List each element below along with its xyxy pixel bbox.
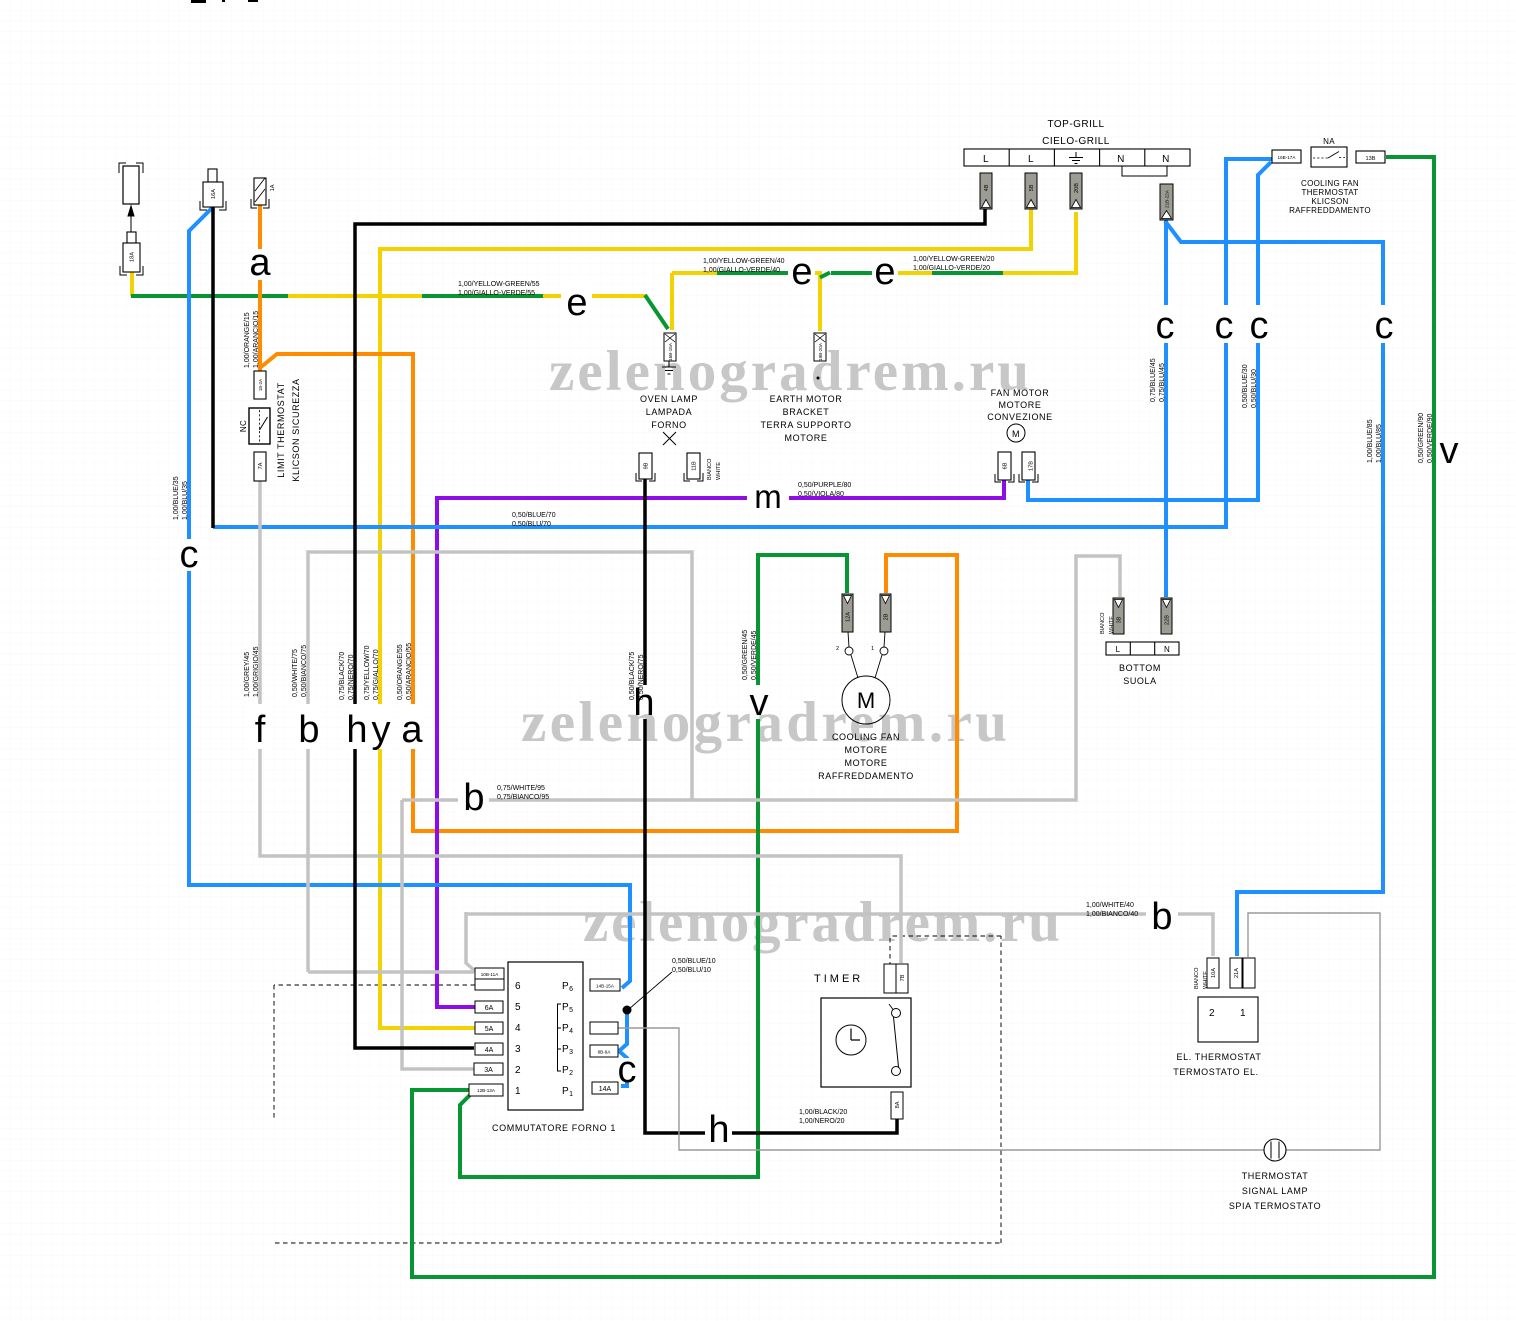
- dashed wire into 7B: [889, 938, 891, 964]
- svg-text:3A: 3A: [484, 1067, 493, 1074]
- svg-text:b: b: [298, 709, 319, 751]
- svg-text:c: c: [1250, 305, 1269, 347]
- connector 8A: [891, 1092, 903, 1119]
- connector 4A: [475, 1043, 503, 1055]
- svg-text:16B-17A: 16B-17A: [1278, 155, 1297, 160]
- svg-text:1,00/ARANCIO/15: 1,00/ARANCIO/15: [253, 311, 260, 368]
- svg-text:3B: 3B: [1117, 616, 1123, 623]
- svg-text:18A: 18A: [130, 252, 136, 262]
- arrow link: [128, 206, 134, 243]
- wire a orange 0,50/ORANGE/55 : limit thermostat to cooling fan motor 2B: [261, 354, 957, 831]
- wire f grey 1,00/GREY/45 : limit thermostat 7A to timer 7B: [260, 481, 901, 963]
- svg-text:21B-22A: 21B-22A: [1165, 189, 1170, 208]
- svg-text:16B-15A: 16B-15A: [668, 342, 673, 361]
- earth wire 1,00/YELLOW-GREEN/40 + /20 (oven lamp, earth motor bracket, top grill 20B): [672, 212, 1078, 331]
- motor terminal 1: [884, 632, 885, 647]
- svg-text:22B: 22B: [1165, 615, 1171, 625]
- connector 10A: [1207, 958, 1219, 988]
- svg-text:WHITE: WHITE: [1109, 616, 1115, 634]
- svg-text:BIANCO: BIANCO: [707, 458, 713, 480]
- connector 7B (two ways): [884, 964, 896, 993]
- svg-text:SPIA TERMOSTATO: SPIA TERMOSTATO: [1229, 1201, 1321, 1211]
- svg-text:N: N: [1162, 154, 1170, 165]
- svg-text:14A: 14A: [599, 1086, 612, 1093]
- connector 5B: [1025, 173, 1037, 209]
- connector 12B-13A: [469, 1084, 503, 1096]
- svg-text:0,75/BLUE/45: 0,75/BLUE/45: [1150, 358, 1157, 402]
- dashed wire x1001: [1000, 936, 1002, 1243]
- svg-text:1,00/BLUE/85: 1,00/BLUE/85: [1367, 419, 1374, 463]
- svg-text:KLICSON: KLICSON: [1311, 197, 1348, 206]
- svg-text:e: e: [874, 251, 895, 293]
- svg-text:v: v: [750, 682, 769, 724]
- svg-text:0,50/BIANCO/75: 0,50/BIANCO/75: [301, 645, 308, 697]
- connector 18-2A: [254, 371, 266, 399]
- svg-text:L: L: [1116, 645, 1121, 654]
- svg-text:0,50/WHITE/75: 0,50/WHITE/75: [292, 649, 299, 697]
- svg-text:e: e: [791, 251, 812, 293]
- svg-text:MOTORE: MOTORE: [845, 745, 888, 755]
- svg-text:h: h: [346, 709, 367, 751]
- svg-text:0,50/ARANCIO/55: 0,50/ARANCIO/55: [406, 643, 413, 700]
- svg-text:0,50/BLU/70: 0,50/BLU/70: [512, 521, 551, 528]
- svg-text:c: c: [1215, 305, 1234, 347]
- thermostat signal lamp: [1264, 1139, 1286, 1161]
- wire c blue 0,75/BLUE/45 : 21B-22A to bottom element 22B: [1164, 219, 1168, 597]
- connector 21B-22A: [1160, 184, 1173, 220]
- N-N bridge bracket: [1122, 166, 1167, 176]
- wire y yellow 0,75/YELLOW/70 : top-grill 5B to commutatore 5A: [380, 209, 1031, 1028]
- svg-text:10A: 10A: [1211, 968, 1217, 978]
- svg-text:1: 1: [871, 646, 874, 652]
- thermostat signal lamp loop wire: [618, 913, 1380, 1150]
- svg-text:1,00/YELLOW-GREEN/40: 1,00/YELLOW-GREEN/40: [703, 258, 785, 265]
- svg-text:19B-20A: 19B-20A: [818, 342, 823, 361]
- connector blank (lamp return): [1243, 958, 1255, 988]
- svg-text:0,50/BLU/30: 0,50/BLU/30: [1251, 369, 1258, 408]
- wire c blue 1,00/BLUE/35 : 16A down left side to commutatore 14B-15A: [189, 159, 1383, 1086]
- svg-text:WHITE: WHITE: [1203, 971, 1209, 989]
- svg-text:12A: 12A: [846, 612, 852, 622]
- svg-text:0,50/ORANGE/55: 0,50/ORANGE/55: [397, 644, 404, 700]
- connector 6B: [995, 452, 1014, 482]
- dashed wire x274: [273, 985, 275, 1119]
- wire m purple 0,50/PURPLE/80 : fan motor 6B to commutatore 6A: [437, 480, 1004, 1007]
- svg-text:COOLING FAN: COOLING FAN: [832, 732, 900, 742]
- earth wire 1,00/YELLOW-GREEN/55 (18A to oven lamp): [131, 272, 668, 329]
- svg-text:0,75/NERO/70: 0,75/NERO/70: [348, 654, 355, 700]
- connector 11B: [684, 453, 703, 481]
- ground symbol oven lamp: [662, 361, 676, 374]
- svg-text:0,50/GREEN/90: 0,50/GREEN/90: [1418, 413, 1425, 463]
- svg-text:1,00/GIALLO-VERDE/20: 1,00/GIALLO-VERDE/20: [913, 265, 990, 272]
- svg-text:4B: 4B: [984, 184, 990, 191]
- svg-text:BOTTOM: BOTTOM: [1119, 663, 1161, 673]
- svg-text:0,50/BLACK/75: 0,50/BLACK/75: [629, 652, 636, 700]
- svg-text:zelenogradrem.ru: zelenogradrem.ru: [583, 891, 1060, 954]
- svg-text:10B-11A: 10B-11A: [481, 972, 499, 977]
- svg-text:1,00/GIALLO-VERDE/40: 1,00/GIALLO-VERDE/40: [703, 267, 780, 274]
- svg-text:4: 4: [515, 1023, 521, 1034]
- svg-text:20B: 20B: [1074, 183, 1080, 193]
- svg-text:1,00/BLACK/20: 1,00/BLACK/20: [799, 1109, 847, 1116]
- svg-text:BIANCO: BIANCO: [1194, 967, 1200, 989]
- svg-text:6B: 6B: [1003, 462, 1009, 469]
- oven lamp connector 16B-15A: [664, 333, 676, 361]
- svg-text:f: f: [255, 709, 266, 751]
- svg-text:NC: NC: [239, 420, 248, 432]
- svg-text:1,00/WHITE/40: 1,00/WHITE/40: [1086, 902, 1134, 909]
- svg-text:5B: 5B: [1029, 184, 1035, 191]
- earth symbol: [1069, 152, 1083, 164]
- cooling fan thermostat NA contact: [1311, 147, 1347, 167]
- connector 3B: [1113, 598, 1124, 634]
- svg-text:1,00/BLU/35: 1,00/BLU/35: [182, 481, 189, 520]
- svg-text:a: a: [249, 242, 271, 284]
- wire v green 0,50/GREEN/90 : commutatore 12B-13A around perimeter to 13B: [412, 157, 1434, 1277]
- svg-text:LIMIT THERMOSTAT: LIMIT THERMOSTAT: [276, 382, 286, 477]
- svg-text:M: M: [857, 688, 875, 713]
- spare connector top-left: [119, 163, 143, 204]
- svg-text:FAN MOTOR: FAN MOTOR: [991, 388, 1050, 398]
- junction dot on blue wire: [623, 1006, 632, 1015]
- svg-text:c: c: [1156, 305, 1175, 347]
- svg-text:0,50/BLU/10: 0,50/BLU/10: [672, 967, 711, 974]
- connector 6A: [475, 1001, 503, 1013]
- svg-text:m: m: [754, 478, 782, 515]
- dashed wire y936: [890, 935, 1001, 937]
- svg-text:TERMOSTATO EL.: TERMOSTATO EL.: [1173, 1067, 1258, 1077]
- connector 4B: [980, 173, 992, 209]
- svg-text:1,00/GREY/45: 1,00/GREY/45: [244, 652, 251, 697]
- svg-text:BIANCO: BIANCO: [1100, 612, 1106, 634]
- svg-text:y: y: [372, 709, 391, 751]
- svg-text:0,50/VERDE/90: 0,50/VERDE/90: [1427, 413, 1434, 463]
- svg-text:v: v: [1440, 430, 1459, 472]
- svg-text:RAFFREDDAMENTO: RAFFREDDAMENTO: [818, 771, 914, 781]
- wire black 16A feed down to blue junction: [211, 207, 215, 528]
- connector 3A: [474, 1063, 503, 1075]
- wire c blue 0,50/BLUE/10 : junction down to 8B-9A and 14A: [619, 1008, 627, 1051]
- svg-text:1,00/NERO/20: 1,00/NERO/20: [799, 1118, 845, 1125]
- svg-text:M: M: [1012, 429, 1020, 439]
- svg-text:2: 2: [515, 1065, 521, 1076]
- svg-text:2B: 2B: [884, 613, 890, 620]
- svg-text:21A: 21A: [1234, 968, 1240, 978]
- commutatore forno switch body: [508, 962, 583, 1110]
- top grill terminal block: [964, 149, 1190, 166]
- svg-text:0,75/YELLOW/70: 0,75/YELLOW/70: [364, 645, 371, 700]
- fuse 1A: [251, 178, 269, 208]
- svg-text:c: c: [1375, 305, 1394, 347]
- svg-text:1,00/YELLOW-GREEN/55: 1,00/YELLOW-GREEN/55: [458, 281, 540, 288]
- svg-text:COOLING FAN: COOLING FAN: [1301, 179, 1359, 188]
- motor terminal 2: [848, 632, 849, 647]
- svg-text:7A: 7A: [258, 462, 264, 469]
- connector 5A: [475, 1022, 503, 1034]
- connector 2B: [880, 594, 891, 632]
- connector blank (signal lamp tap): [590, 1022, 618, 1034]
- svg-text:FORNO: FORNO: [651, 420, 687, 430]
- svg-text:1,00/BIANCO/40: 1,00/BIANCO/40: [1086, 911, 1138, 918]
- svg-text:0,50/BLUE/30: 0,50/BLUE/30: [1242, 364, 1249, 408]
- wire c blue 0,50/BLUE/30 : 16A black junction to cooling fan thermostat 16B-17A: [213, 159, 1272, 527]
- dashed wire y1243: [275, 1242, 1001, 1244]
- svg-text:WHITE: WHITE: [716, 462, 722, 480]
- cropped title block marks top edge: [191, 0, 258, 3]
- wire b grey 1,00/WHITE/40 : commutatore 10B-11A to EL thermostat 10A: [466, 912, 1213, 971]
- svg-text:5A: 5A: [485, 1026, 494, 1033]
- svg-text:TERRA SUPPORTO: TERRA SUPPORTO: [760, 420, 851, 430]
- svg-text:OVEN LAMP: OVEN LAMP: [640, 394, 698, 404]
- connector 9B: [636, 453, 655, 481]
- svg-text:THERMOSTAT: THERMOSTAT: [1242, 1171, 1309, 1181]
- svg-text:LAMPADA: LAMPADA: [646, 407, 693, 417]
- connector 7A: [254, 452, 266, 481]
- connector 12A: [842, 594, 853, 632]
- svg-text:0,75/BLACK/70: 0,75/BLACK/70: [339, 652, 346, 700]
- svg-text:MOTORE: MOTORE: [785, 433, 828, 443]
- svg-text:0,50/GREEN/45: 0,50/GREEN/45: [742, 630, 749, 680]
- svg-text:L: L: [1028, 154, 1034, 165]
- svg-text:0,50/VIOLA/80: 0,50/VIOLA/80: [798, 491, 844, 498]
- svg-text:1,00/ORANGE/15: 1,00/ORANGE/15: [244, 312, 251, 368]
- svg-text:8B-9A: 8B-9A: [598, 1050, 612, 1055]
- svg-text:11B: 11B: [692, 461, 698, 471]
- svg-text:1,00/BLUE/35: 1,00/BLUE/35: [173, 476, 180, 520]
- connector blank below 10B-11A: [475, 979, 504, 990]
- svg-text:2: 2: [1209, 1008, 1215, 1019]
- connector 16A: [200, 169, 226, 210]
- svg-text:RAFFREDDAMENTO: RAFFREDDAMENTO: [1289, 206, 1371, 215]
- svg-text:c: c: [180, 534, 199, 576]
- svg-text:a: a: [401, 709, 423, 751]
- svg-text:MOTORE: MOTORE: [999, 400, 1042, 410]
- connector 21A: [1230, 958, 1242, 988]
- svg-text:16A: 16A: [211, 189, 217, 199]
- connector 14A: [592, 1082, 618, 1094]
- svg-text:b: b: [463, 777, 484, 819]
- earth motor bracket connector 19B-20A: [814, 333, 826, 361]
- connector 13B: [1356, 151, 1385, 163]
- svg-text:0,50/BLUE/70: 0,50/BLUE/70: [512, 512, 556, 519]
- svg-text:6A: 6A: [485, 1005, 494, 1012]
- svg-text:BRACKET: BRACKET: [783, 407, 830, 417]
- leader line for 0,50/BLUE/10 label: [629, 972, 672, 1009]
- svg-text:12B-13A: 12B-13A: [477, 1088, 496, 1093]
- connector 18A: [120, 232, 143, 275]
- timer body: [821, 998, 911, 1087]
- svg-text:0,75/BLU/45: 0,75/BLU/45: [1159, 363, 1166, 402]
- svg-text:17B: 17B: [1029, 461, 1035, 471]
- svg-text:h: h: [708, 1109, 729, 1151]
- svg-text:0,75/WHITE/95: 0,75/WHITE/95: [497, 785, 545, 792]
- svg-text:1,00/BLU/85: 1,00/BLU/85: [1376, 424, 1383, 463]
- pole group bracket: [558, 1004, 562, 1071]
- connector 10B-11A: [475, 968, 504, 979]
- wire c blue 1,00/BLUE/85 : 21B-22A branch to EL thermostat 21A: [1165, 221, 1383, 956]
- wire b grey 0,50/WHITE/75 + 0,75/WHITE/95 : commutatore 10B-11A / 3A / bottom element 3B: [308, 552, 1120, 1069]
- svg-text:0,75/GIALLO/70: 0,75/GIALLO/70: [373, 649, 380, 700]
- dashed control link: commutatore 10B-11A to timer/thermostat: [274, 936, 1001, 1243]
- connector 16B-17A: [1272, 150, 1301, 163]
- bottom element terminal block: [1106, 642, 1179, 655]
- svg-text:0,50/PURPLE/80: 0,50/PURPLE/80: [798, 482, 851, 489]
- timer contact: [892, 1009, 901, 1018]
- connector 17B: [1019, 452, 1038, 482]
- connector 22B: [1161, 598, 1172, 634]
- svg-text:c: c: [618, 1049, 637, 1091]
- limit thermostat NC contact: [249, 408, 270, 444]
- wire letter gaps: [176, 249, 1397, 1146]
- svg-text:CIELO-GRILL: CIELO-GRILL: [1042, 136, 1110, 147]
- connector 20B: [1070, 173, 1082, 209]
- svg-text:L: L: [983, 154, 989, 165]
- svg-text:13B: 13B: [1366, 156, 1376, 162]
- wire v green 0,50/GREEN/45 : commutatore 12B-13A to cooling fan motor 12A: [460, 555, 847, 1177]
- svg-text:1,00/YELLOW-GREEN/20: 1,00/YELLOW-GREEN/20: [913, 256, 995, 263]
- svg-text:CONVEZIONE: CONVEZIONE: [987, 412, 1053, 422]
- svg-text:6: 6: [515, 981, 521, 992]
- svg-text:9B: 9B: [644, 462, 650, 469]
- svg-text:SIGNAL LAMP: SIGNAL LAMP: [1242, 1186, 1308, 1196]
- svg-text:1: 1: [515, 1086, 521, 1097]
- svg-text:2: 2: [836, 646, 839, 652]
- x mark: [663, 432, 676, 445]
- svg-text:TIMER: TIMER: [814, 973, 863, 985]
- dot below bracket: [817, 377, 820, 380]
- svg-text:1A: 1A: [270, 184, 276, 191]
- svg-text:14B-15A: 14B-15A: [596, 984, 615, 989]
- dashed wire y985: [274, 984, 475, 986]
- svg-text:COMMUTATORE FORNO 1: COMMUTATORE FORNO 1: [492, 1123, 616, 1133]
- svg-text:NA: NA: [1323, 137, 1335, 146]
- svg-text:SUOLA: SUOLA: [1123, 676, 1157, 686]
- svg-text:1: 1: [1240, 1008, 1246, 1019]
- svg-text:KLICSON SICUREZZA: KLICSON SICUREZZA: [291, 378, 301, 481]
- connector 14B-15A: [590, 979, 620, 991]
- svg-text:0,75/BIANCO/95: 0,75/BIANCO/95: [497, 794, 549, 801]
- svg-text:1,00/GIALLO-VERDE/55: 1,00/GIALLO-VERDE/55: [458, 290, 535, 297]
- svg-text:0,50/VERDE/45: 0,50/VERDE/45: [751, 630, 758, 680]
- wire h black 0,50/BLACK/75 + 1,00/BLACK/20 : oven lamp 9B to timer 8A: [645, 478, 897, 1133]
- svg-text:18-2A: 18-2A: [258, 378, 263, 391]
- svg-text:EL. THERMOSTAT: EL. THERMOSTAT: [1177, 1052, 1262, 1062]
- svg-text:e: e: [566, 282, 587, 324]
- svg-text:5: 5: [515, 1002, 521, 1013]
- svg-text:b: b: [1151, 896, 1172, 938]
- svg-text:N: N: [1117, 154, 1125, 165]
- svg-text:3: 3: [515, 1044, 521, 1055]
- svg-text:N: N: [1164, 645, 1170, 654]
- svg-text:TOP-GRILL: TOP-GRILL: [1047, 119, 1104, 130]
- svg-text:8A: 8A: [895, 1101, 901, 1108]
- motor M convezione: [1007, 424, 1025, 442]
- svg-text:7B: 7B: [900, 974, 906, 981]
- svg-text:0,50/BLUE/10: 0,50/BLUE/10: [672, 958, 716, 965]
- cooling fan motor M: [851, 655, 882, 678]
- svg-text:4A: 4A: [485, 1047, 494, 1054]
- svg-text:MOTORE: MOTORE: [845, 758, 888, 768]
- timer clock: [836, 1025, 866, 1055]
- wire a orange 1,00/ORANGE/15 : 1A fuse down to limit thermostat 18-2A: [260, 205, 957, 831]
- svg-text:EARTH MOTOR: EARTH MOTOR: [770, 394, 843, 404]
- EL thermostat body: [1198, 997, 1258, 1042]
- svg-text:THERMOSTAT: THERMOSTAT: [1302, 188, 1359, 197]
- svg-text:1,00/GRIGIO/45: 1,00/GRIGIO/45: [253, 646, 260, 697]
- svg-text:0,50/NERO/75: 0,50/NERO/75: [638, 654, 645, 700]
- connector 8B-9A: [590, 1045, 618, 1057]
- wire h black 0,75/BLACK/70 : top-grill 4B to commutatore 4A: [213, 207, 985, 1133]
